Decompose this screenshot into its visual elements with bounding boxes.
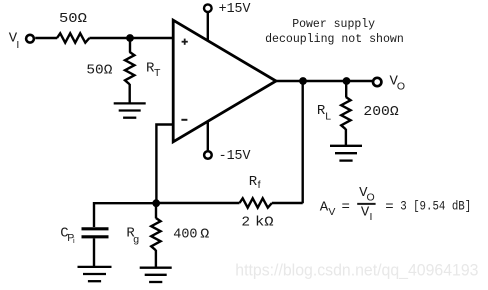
wire inverting input [156,125,173,204]
junction RL node [343,77,351,85]
label Rf [249,174,261,191]
wire feedback to Rf [272,202,303,204]
ground Rg [140,268,172,282]
wire VI to R50 [35,37,57,39]
svg-text:400: 400 [173,227,197,243]
wire RT to ground [128,84,130,104]
wire +15V supply [207,13,209,41]
label Rg [126,226,139,246]
junction node G [152,199,160,207]
svg-text:3 [9.54 dB]: 3 [9.54 dB] [400,198,471,213]
svg-text:2: 2 [241,215,250,231]
svg-text:I: I [16,39,19,51]
wire node G to CPi [94,203,156,227]
junction input node [126,34,134,42]
op-amp U1 [173,20,276,142]
wire output rail [276,80,372,82]
resistor RT [125,52,134,84]
wire Rg to ground [155,250,157,268]
wire -15V supply [207,122,209,151]
svg-text:T: T [154,67,161,79]
svg-text:f: f [258,179,261,191]
terminal VO [373,78,381,86]
ground CPi [78,267,112,281]
svg-text:50Ω: 50Ω [86,63,112,79]
svg-text:=: = [342,199,350,215]
svg-text:g: g [133,234,139,246]
svg-text:=: = [385,199,393,215]
wire RL top [345,81,347,97]
svg-text:https://blog.csdn.net/qq_40964: https://blog.csdn.net/qq_40964193 [235,261,478,279]
wire feedback vertical [302,81,304,203]
terminal VI [26,35,34,43]
op-amp plus pin mark [182,39,188,45]
svg-text:50Ω: 50Ω [59,11,87,27]
ground RT [114,103,146,117]
resistor RL [341,97,350,129]
svg-text:-15V: -15V [219,148,251,164]
svg-text:200Ω: 200Ω [363,104,399,120]
wire Rg top [155,203,157,218]
label RT [146,60,161,79]
svg-text:R: R [249,174,258,190]
label CPi [60,226,75,245]
capacitor CPi [82,229,109,237]
wire junction to RT [129,38,131,53]
wire Rf to node G [156,202,240,204]
equation gain AV [320,185,471,223]
junction feedback node [299,77,307,85]
svg-text:I: I [370,211,373,223]
wire R50 to op-amp + input [89,37,173,39]
resistor R50 (series 50 ohm) [57,33,89,42]
svg-text:O: O [397,81,405,93]
terminal -15V [204,151,212,159]
annotation power supply note [265,17,404,46]
wire CPi to ground [93,238,95,267]
svg-text:O: O [367,192,375,204]
svg-text:Power supply: Power supply [292,17,375,31]
terminal +15V [204,4,212,12]
svg-text:Ω: Ω [200,227,210,243]
svg-text:V: V [328,206,335,218]
wire RL to ground [345,129,347,146]
svg-text:+15V: +15V [219,1,251,17]
resistor Rg [151,218,160,250]
label VO [390,74,406,93]
node VI label [9,30,20,51]
label RL [317,103,331,123]
resistor Rf [240,198,272,207]
svg-text:L: L [325,110,331,122]
svg-text:i: i [73,236,75,245]
op-amp minus pin mark [181,119,187,121]
svg-text:decoupling not shown: decoupling not shown [265,32,404,46]
svg-text:kΩ: kΩ [255,215,274,231]
ground RL [330,146,362,161]
